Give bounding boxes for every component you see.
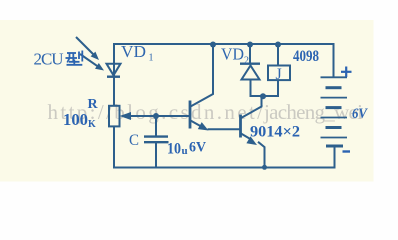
light arrow 1 (76, 37, 99, 60)
svg-text:VD: VD (221, 45, 244, 64)
battery - label (343, 150, 351, 152)
relay J (268, 44, 290, 97)
svg-text:C: C (129, 132, 139, 149)
svg-text:6V: 6V (189, 140, 206, 156)
svg-text:2: 2 (244, 56, 249, 67)
Q1 emitter arrowhead (198, 122, 209, 130)
wire battery bottom lead (334, 146, 336, 168)
wiper arrow of R (120, 112, 190, 120)
svg-text:VD: VD (121, 42, 146, 61)
svg-text:K: K (88, 119, 96, 130)
Q2 emitter arrowhead (246, 136, 257, 145)
Q1 emitter (191, 121, 204, 128)
transistor Q2 base bar (239, 115, 242, 138)
photodiode VD1 (107, 64, 121, 77)
node wiper/cap junction (153, 113, 159, 119)
svg-text:2CU: 2CU (34, 50, 64, 69)
Chinese glyph 型 (drawn) (66, 51, 83, 65)
node relay / top rail (275, 42, 281, 48)
Q2 emitter (241, 134, 265, 148)
wire battery top lead (333, 43, 335, 77)
svg-text:R: R (88, 97, 99, 112)
wire VD2/relay bottom node line (251, 95, 279, 97)
diode VD2 (240, 44, 260, 97)
svg-text:9014×2: 9014×2 (250, 124, 300, 141)
light arrow 2 (80, 54, 104, 71)
wire left vertical (113, 43, 115, 106)
transistor Q1 base bar (189, 101, 192, 129)
wire top rail (114, 43, 334, 45)
wire Q1 emitter to Q2 base (208, 128, 241, 130)
potentiometer R 100k (109, 106, 120, 127)
wire bottom rail (113, 167, 336, 169)
svg-text:J: J (276, 66, 282, 83)
svg-text:10: 10 (167, 141, 181, 158)
paper cream area (0, 20, 374, 182)
svg-text:1: 1 (149, 53, 154, 64)
node Q2 collector junction (260, 93, 266, 99)
capacitor C 10u 6V (144, 116, 169, 168)
svg-text:4098: 4098 (293, 48, 319, 65)
node VD2 / top rail (247, 42, 253, 48)
svg-text:6V: 6V (352, 106, 369, 122)
svg-text:100: 100 (63, 110, 88, 129)
Q2 collector (241, 96, 262, 118)
svg-text:jacheng_wei: jacheng_wei (263, 100, 363, 124)
svg-text:u: u (182, 145, 188, 157)
battery + label (341, 67, 352, 78)
Q1 collector (191, 44, 214, 107)
Q2 emitter vertical to rail (264, 147, 266, 168)
wire left lower vertical (113, 126, 115, 169)
node Q1 collector / top rail (210, 42, 216, 48)
node Q2 emitter / bottom rail (262, 165, 267, 170)
battery B1 6V (321, 77, 348, 146)
